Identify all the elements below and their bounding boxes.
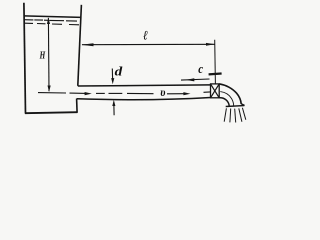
spout outer curve: [219, 84, 241, 104]
d dim upper arrowhead (down): [111, 78, 114, 84]
l dimension line: [82, 43, 215, 45]
svg-text:ℓ: ℓ: [143, 28, 148, 43]
svg-text:H: H: [39, 50, 46, 61]
tank left wall: [24, 3, 26, 114]
svg-text:c: c: [198, 61, 203, 76]
l dim left arrowhead: [81, 43, 93, 46]
H dim top arrowhead: [47, 18, 50, 24]
centerline dash: [96, 92, 105, 94]
spout inner curve: [219, 98, 229, 106]
centerline dash: [109, 92, 123, 94]
spray line 2: [229, 109, 232, 123]
spout flare connector: [241, 104, 245, 106]
pipe centerline in tank: [38, 92, 66, 94]
spout centerline curve: [220, 92, 233, 106]
spray line 5: [242, 108, 245, 120]
valve X diagonal 1: [211, 84, 220, 98]
valve T-handle: [209, 72, 222, 75]
valve X diagonal 2: [211, 84, 220, 98]
l/valve stem extension line: [214, 40, 217, 84]
d dimension lower arrow line: [113, 106, 115, 115]
pipe top edge: [78, 85, 211, 86]
spray line 3: [235, 109, 236, 123]
svg-text:υ: υ: [160, 85, 165, 99]
water surface line: [24, 16, 81, 18]
water surface hatch row 1: [24, 20, 78, 21]
spray line 1: [224, 108, 226, 121]
valve box: [211, 84, 220, 98]
tank bottom: [25, 112, 77, 113]
tank right wall upper: [78, 5, 82, 86]
spout outlet rim: [226, 105, 245, 108]
d dim lower arrowhead (up): [112, 100, 115, 106]
c arrowhead (left): [186, 78, 195, 81]
H dimension line: [47, 18, 50, 91]
pipe bottom edge: [77, 98, 211, 100]
svg-text:d: d: [115, 64, 123, 79]
l dim right arrowhead: [206, 43, 215, 46]
centerline dash after v with arrow: [167, 93, 186, 95]
flow arrowhead at pipe entrance: [85, 92, 92, 95]
d dimension upper arrow line: [111, 69, 113, 80]
tank right wall lower: [76, 99, 79, 113]
water surface hatch row 2: [25, 23, 79, 25]
centerline dash before valve: [204, 91, 211, 93]
c arrow line: [181, 79, 210, 80]
flow arrowhead mid pipe: [183, 92, 190, 95]
centerline dash: [127, 92, 154, 94]
H dim bottom arrowhead: [48, 86, 51, 92]
flow arrow segment at pipe entrance: [70, 92, 88, 94]
spray line 4: [239, 108, 242, 121]
